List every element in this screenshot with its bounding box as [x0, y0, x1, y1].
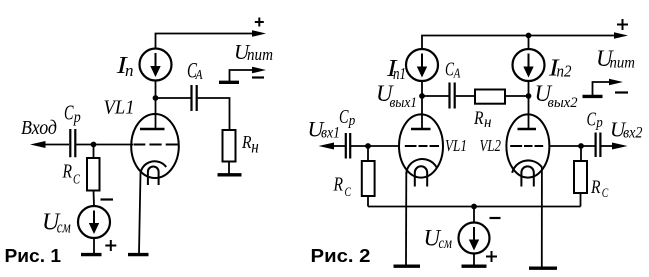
svg-text:р: р [595, 115, 603, 131]
cathode arc VL1 fig2 [406, 159, 436, 174]
cathode arc VL2 fig2 [512, 160, 542, 172]
wire: grid VL2 to node fig2 [549, 145, 595, 147]
svg-text:R: R [241, 132, 251, 152]
current source In1 arrow fig2 [421, 54, 423, 68]
minus sign fig2 [615, 91, 628, 93]
wire: top rail fig1 [156, 34, 254, 50]
wire: Cp to grid node fig2 [351, 145, 400, 147]
node grid2 fig2 [578, 143, 584, 149]
resistor RH fig1 [223, 130, 236, 162]
anode bar VL1 fig2 [411, 128, 431, 130]
plus sign fig2 top [617, 19, 628, 30]
wire: In2 to node fig2 [528, 81, 530, 129]
wire: VL1 cathode to ground fig2 [405, 174, 407, 266]
wire: In1 to node fig2 [421, 81, 423, 129]
ground VL2 fig2 [529, 267, 557, 270]
capacitor Cp left fig2 [346, 133, 350, 159]
wire: Usm to ground fig2 [473, 254, 475, 266]
svg-text:C: C [64, 101, 74, 125]
svg-text:вых1: вых1 [390, 95, 418, 111]
node grid1 fig2 [365, 143, 371, 149]
svg-text:вых2: вых2 [548, 95, 578, 111]
svg-text:н: н [251, 137, 259, 157]
current source In1 circle fig2 [406, 49, 438, 81]
wire arrowhead +supply fig2 [614, 32, 628, 39]
svg-text:вх2: вх2 [623, 125, 643, 142]
input arrow fig1 [30, 141, 46, 148]
wire: node to RC fig1 [93, 145, 95, 159]
current source In2 circle fig2 [513, 49, 545, 81]
svg-text:пит: пит [610, 55, 636, 72]
node bias bus fig2 [471, 204, 477, 210]
svg-text:п: п [125, 61, 134, 80]
resistor RC fig1 [87, 158, 100, 191]
grid (dashed) VL1 fig1 [134, 144, 178, 146]
heater VL2 fig2 [521, 166, 533, 186]
tube envelope VL1 fig2 [399, 114, 443, 177]
wire: RC right to bus fig2 [580, 193, 582, 207]
wire: bias bus fig2 [368, 206, 581, 208]
wire: node to CA fig1 [156, 97, 191, 99]
input arrow Uvh1 fig2 [319, 143, 335, 150]
svg-text:Рис. 1: Рис. 1 [5, 245, 61, 266]
ground RH fig1 [218, 173, 242, 176]
minus sign Usm fig2 [490, 217, 501, 219]
svg-text:п2: п2 [557, 62, 572, 81]
resistor RC left fig2 [362, 161, 375, 196]
capacitor Cp right fig2 [596, 133, 601, 158]
svg-text:R: R [473, 109, 483, 129]
ground Usm fig2 [462, 265, 487, 268]
svg-text:A: A [195, 68, 203, 83]
wire: node to RC left fig2 [367, 146, 369, 161]
node Uvyh1 fig2 [419, 93, 425, 99]
current source In arrow fig1 [155, 53, 157, 67]
bias source Usm circle fig2 [459, 223, 490, 254]
wire: node to RC right fig2 [580, 146, 582, 161]
svg-text:C: C [587, 110, 597, 131]
svg-text:Вход: Вход [21, 117, 57, 139]
svg-text:R: R [62, 162, 72, 183]
capacitor Cp fig1 [70, 129, 75, 157]
wire: circle to node fig1 [155, 81, 157, 99]
svg-text:VL1: VL1 [445, 136, 467, 155]
svg-text:п1: п1 [393, 64, 406, 83]
wire: top rail fig2 [422, 36, 615, 51]
wire: Usm to ground fig1 [93, 238, 95, 253]
ground VL1 fig2 [394, 265, 421, 268]
wire: RC to Usm fig1 [93, 191, 96, 207]
tube envelope VL2 fig2 [506, 114, 549, 177]
plus sign Usm fig1 [105, 240, 116, 251]
minus sign fig1 [252, 76, 264, 78]
heater VL1 fig2 [415, 166, 427, 186]
node top rail fig2 [526, 33, 532, 39]
wire: RC left to bias bus fig2 [367, 196, 369, 207]
tube envelope VL1 fig1 [131, 114, 179, 178]
wire: CA to RH fig2 [456, 95, 475, 97]
svg-text:р: р [73, 109, 81, 126]
bias source arrow fig2 [473, 227, 475, 241]
svg-text:см: см [57, 218, 71, 237]
svg-text:VL1: VL1 [104, 97, 135, 119]
svg-text:A: A [453, 66, 461, 81]
capacitor CA fig1 [192, 85, 197, 111]
wire: cathode to ground fig1 [139, 174, 141, 254]
supply minus terminal fig2 [583, 95, 603, 98]
svg-text:н: н [484, 114, 492, 131]
supply minus terminal fig1 [219, 81, 239, 84]
current source In2 arrow fig2 [528, 54, 530, 68]
wire: CA to RH fig1 [198, 98, 230, 130]
grid (dashed) VL2 fig2 [510, 145, 543, 147]
plus sign fig1 top [255, 18, 264, 27]
capacitor CA fig2 [450, 83, 455, 109]
node grid fig1 [91, 142, 97, 148]
wire: Cp to grid fig1 [76, 144, 133, 146]
grid (dashed) VL1 fig2 [405, 145, 439, 147]
bias source arrow fig1 [93, 211, 95, 225]
minus sign Usm fig1 [101, 198, 114, 200]
plus sign Usm fig2 [486, 251, 497, 262]
svg-text:вх1: вх1 [321, 125, 340, 142]
ground cathode fig1 [128, 253, 149, 256]
svg-text:С: С [345, 184, 352, 199]
wire: RH to node2 fig2 [505, 95, 529, 97]
svg-text:р: р [348, 113, 356, 129]
svg-text:Рис. 2: Рис. 2 [311, 245, 371, 266]
svg-text:пит: пит [247, 45, 273, 64]
anode bar VL2 fig2 [518, 128, 537, 130]
svg-text:R: R [590, 177, 601, 198]
wire: node1 to CA fig2 [422, 95, 449, 97]
wire: bus to Usm fig2 [473, 207, 475, 223]
svg-text:VL2: VL2 [480, 136, 502, 155]
svg-text:R: R [333, 175, 343, 196]
node Uvyh2 fig2 [526, 93, 532, 99]
resistor RH fig2 [475, 90, 505, 104]
bias source Usm circle fig1 [78, 206, 110, 238]
anode bar VL1 fig1 [140, 128, 165, 130]
heater VL1 fig1 [148, 166, 159, 185]
resistor RC right fig2 [574, 161, 587, 193]
svg-text:С: С [73, 173, 80, 188]
wire: anode lead fig1 [155, 98, 157, 129]
wire: rail to In2 fig2 [528, 36, 530, 50]
wire: RH to ground fig1 [228, 162, 230, 174]
node anode fig1 [153, 95, 159, 101]
current source In circle fig1 [140, 49, 172, 81]
ground Usm fig1 [81, 253, 102, 256]
cathode arc VL1 fig1 [141, 161, 167, 173]
output arrow Uvh2 fig2 [601, 145, 613, 147]
svg-text:С: С [602, 185, 609, 200]
svg-text:см: см [439, 235, 453, 252]
wire: VL2 cathode to ground fig2 [541, 167, 543, 267]
svg-text:C: C [339, 106, 349, 128]
wire arrowhead +supply fig1 [252, 30, 266, 37]
